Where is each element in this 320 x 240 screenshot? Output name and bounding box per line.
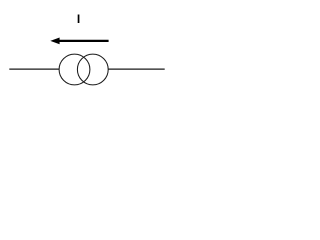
wire right lead — [108, 68, 165, 70]
wire left lead — [9, 68, 59, 70]
current source CS1 circle right — [77, 54, 108, 85]
current direction arrow — [50, 38, 108, 45]
svg-text:I: I — [77, 12, 80, 26]
current source CS1 circle left — [59, 54, 90, 85]
